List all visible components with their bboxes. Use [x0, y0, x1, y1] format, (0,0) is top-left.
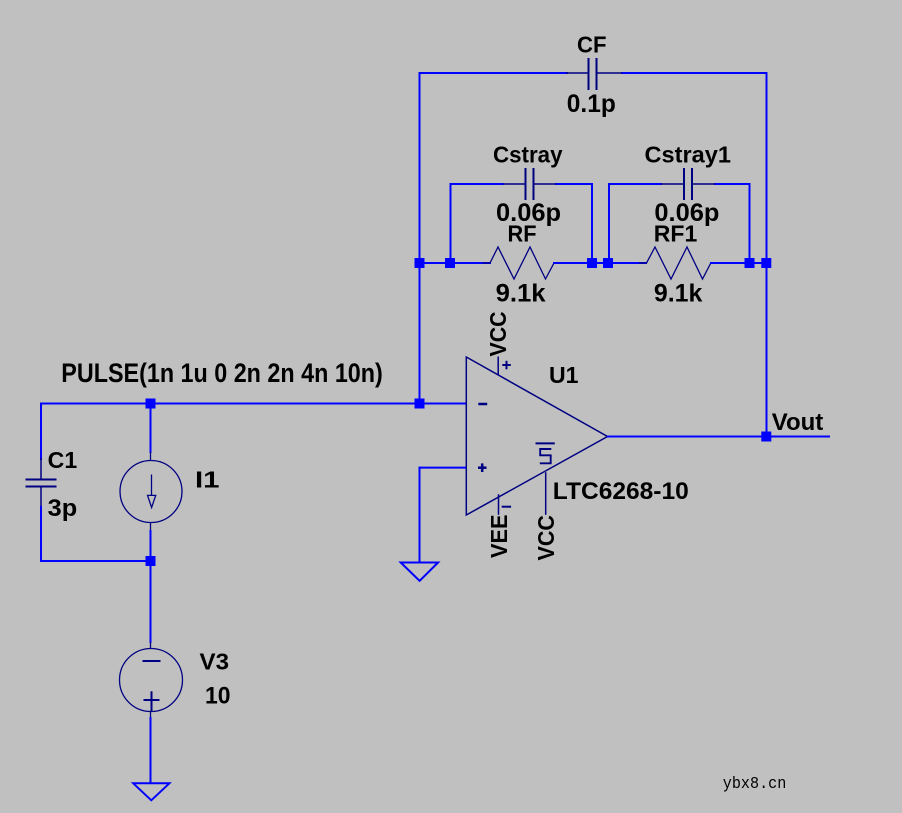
svg-text:Cstray: Cstray: [493, 142, 563, 168]
svg-text:0.1p: 0.1p: [567, 90, 616, 118]
wire input horizontal: [41, 403, 466, 405]
svg-text:U1: U1: [549, 362, 579, 388]
svg-text:ybx8.cn: ybx8.cn: [723, 775, 787, 794]
voltage source V3: [120, 642, 183, 718]
svg-text:RF: RF: [508, 221, 537, 247]
wire C1 top lead: [40, 403, 42, 461]
wire top feedback horizontal left: [419, 72, 569, 74]
wire RF row left: [420, 262, 492, 264]
svg-text:C1: C1: [48, 447, 78, 473]
wire RF row right: [710, 262, 767, 264]
wire bottom horizontal: [40, 560, 151, 562]
capacitor Cstray1: [661, 168, 715, 200]
svg-text:10: 10: [205, 682, 231, 709]
wire feedback drop to input: [419, 263, 421, 404]
node (input / I1 top): [146, 399, 156, 409]
capacitor CF: [566, 58, 622, 90]
op-amp enable pin 5: [536, 443, 555, 514]
wire + input horizontal: [420, 467, 467, 469]
op-amp V+ pin: [498, 357, 511, 375]
svg-text:Cstray1: Cstray1: [645, 142, 732, 168]
wire right feedback vertical: [766, 72, 768, 437]
pin number 5 (blocky glyph): [540, 449, 552, 463]
svg-text:V3: V3: [200, 648, 230, 674]
wire top feedback horizontal right: [621, 72, 768, 74]
node (Cstray1 right): [745, 258, 755, 268]
svg-text:3p: 3p: [48, 495, 78, 522]
wire Cstray bracket: [451, 184, 593, 263]
node (feedback right / RF row): [761, 258, 771, 268]
resistor RF1: [639, 247, 718, 279]
wire I1 top lead: [150, 404, 152, 454]
capacitor C1: [26, 458, 57, 508]
wire + input ground vertical: [419, 467, 421, 563]
node (Cstray left): [445, 258, 455, 268]
node (feedback left / RF row): [415, 258, 425, 268]
capacitor Cstray: [503, 168, 556, 200]
svg-text:PULSE(1n 1u 0 2n 2n 4n 10n): PULSE(1n 1u 0 2n 2n 4n 10n): [61, 358, 383, 388]
svg-text:RF1: RF1: [654, 221, 698, 247]
svg-text:9.1k: 9.1k: [496, 280, 546, 308]
node (Cstray1 left / RF1 left): [603, 258, 613, 268]
svg-text:9.1k: 9.1k: [654, 280, 703, 308]
svg-text:I1: I1: [195, 467, 220, 493]
node (bottom rail / V3): [146, 556, 156, 566]
current source I1: [120, 452, 182, 531]
node (Cstray right / RF right): [587, 258, 597, 268]
wire V3 bottom lead: [150, 717, 152, 784]
wire output: [607, 436, 830, 438]
wire top feedback left vertical: [419, 72, 421, 263]
node (output / feedback right): [761, 432, 771, 442]
wire V3 top lead: [150, 561, 152, 643]
svg-text:VCC: VCC: [485, 312, 511, 357]
wire I1 bottom lead: [150, 530, 152, 561]
svg-text:CF: CF: [577, 32, 607, 58]
ground (V3): [133, 783, 169, 800]
wire Cstray1 bracket: [609, 184, 750, 263]
ground (op-amp +): [401, 563, 438, 581]
op-amp U1: [466, 357, 607, 515]
op-amp V- pin: [499, 494, 512, 515]
svg-text:LTC6268-10: LTC6268-10: [553, 478, 689, 505]
wire RF row middle: [553, 262, 647, 264]
node (input / feedback drop): [415, 399, 425, 409]
wire C1 bottom lead: [40, 506, 42, 562]
resistor RF: [483, 247, 562, 279]
svg-text:VCC: VCC: [533, 515, 559, 561]
svg-text:Vout: Vout: [772, 409, 824, 436]
svg-text:VEE: VEE: [486, 515, 512, 559]
